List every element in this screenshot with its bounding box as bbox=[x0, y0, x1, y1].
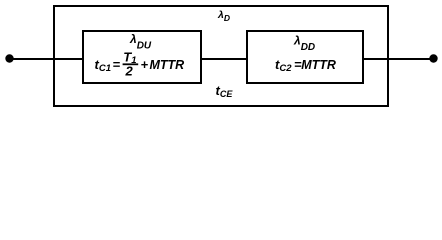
equation t_C1 = T1/2 + MTTR bbox=[95, 50, 185, 79]
wire left segment bbox=[9, 58, 84, 60]
block B2 (lambda_DD channel) bbox=[247, 31, 363, 83]
wire middle segment bbox=[200, 58, 248, 60]
block B1 (lambda_DU channel) bbox=[83, 31, 201, 83]
svg-text:MTTR: MTTR bbox=[150, 58, 185, 72]
svg-text:2: 2 bbox=[125, 63, 134, 78]
node right terminal dot bbox=[429, 54, 437, 62]
wire right segment bbox=[362, 58, 434, 60]
node left terminal dot bbox=[5, 54, 13, 62]
outer system boundary box bbox=[54, 6, 388, 106]
svg-text:=: = bbox=[113, 57, 121, 72]
equation t_C2 = MTTR bbox=[275, 57, 336, 74]
svg-text:MTTR: MTTR bbox=[301, 58, 336, 72]
svg-text:+: + bbox=[141, 57, 149, 72]
